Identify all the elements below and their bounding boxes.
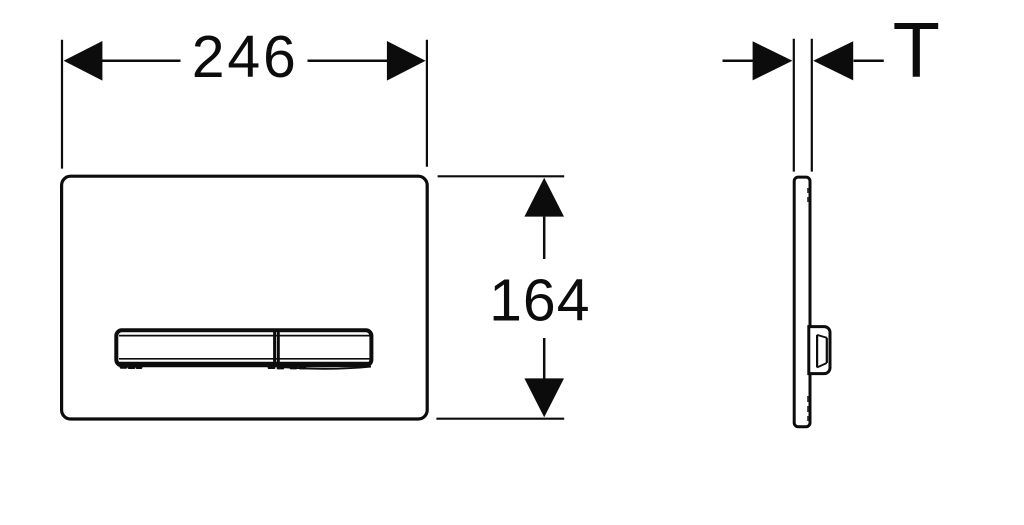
side view knob inner face bottom chamfer [817, 363, 827, 367]
dim 246 line right segment [308, 60, 389, 63]
dim 246 line left segment [102, 60, 181, 63]
button assembly outer frame [116, 330, 371, 365]
svg-text:246: 246 [192, 24, 299, 90]
dim 246 left extension line [61, 40, 63, 169]
dim T right arrowhead pointing left [813, 41, 853, 80]
faint shadow line under button right part [284, 367, 371, 369]
dim 164 up arrowhead [524, 178, 564, 217]
dim 164 line upper segment [543, 217, 546, 259]
dim T left arrowhead pointing right [753, 41, 793, 80]
svg-text:164: 164 [489, 268, 590, 334]
side view knob inner face left edge [816, 335, 818, 368]
side view knob outline [809, 327, 830, 374]
dim T left extension line [793, 39, 795, 172]
button divider right line [277, 332, 280, 364]
side view plate cross-section [794, 177, 810, 427]
small clip tabs below button left end [121, 366, 141, 369]
dim 164 line lower segment [543, 338, 546, 379]
dim 164 down arrowhead [524, 378, 564, 417]
small clip tabs below button middle [269, 366, 305, 369]
svg-text:T: T [893, 8, 940, 94]
dim T right extension line [811, 39, 813, 172]
button inner top trim line [119, 335, 371, 337]
side view knob inner face top chamfer [817, 335, 827, 338]
side view inner edge dashes upper [807, 188, 809, 202]
dim 164 top extension line [438, 175, 565, 177]
button divider left line [273, 332, 276, 364]
side view inner edge dashes lower [807, 396, 809, 421]
dim 246 left arrowhead [64, 41, 103, 81]
dim T left leader line [723, 60, 754, 63]
dim 246 right arrowhead [387, 41, 426, 81]
dim T right leader line [854, 60, 884, 63]
front view plate outline [62, 176, 428, 419]
dim 164 bottom extension line [436, 418, 564, 420]
button inner bottom trim line [119, 358, 371, 360]
dim 246 right extension line [426, 40, 428, 167]
button assembly thicker bottom edge [119, 362, 371, 365]
side view knob inner face right edge [826, 338, 828, 363]
